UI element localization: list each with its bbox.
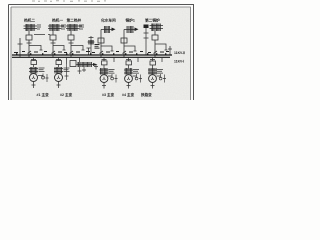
lower bay 4 value dashes (133, 70, 139, 74)
right end riser (168, 46, 172, 55)
upper bay 2 drop wire (52, 40, 54, 57)
lower bay 3 transformer T3 winding (100, 68, 109, 75)
lower bay 5 breaker box (150, 61, 156, 65)
station transformer value dashes (95, 45, 100, 49)
lower bay 2 tail wire (57, 81, 61, 88)
lower bay 3 value dashes (109, 70, 115, 74)
upper bay 3 tick (69, 42, 74, 44)
lower bay 5 tail wire (151, 82, 155, 88)
bus coupling marks above bus (14, 52, 169, 53)
upper bay 5 bus disconnector (123, 51, 127, 54)
upper bay 1 bus disconnector (28, 51, 32, 54)
svg-text:热机二: 热机二 (24, 18, 35, 23)
svg-text:11KV-Ⅰ: 11KV-Ⅰ (174, 60, 184, 64)
lower bay 5 transformer T5 winding (148, 68, 157, 75)
lower bay 3 breaker box (102, 61, 108, 65)
bus 11KV-I (12, 56, 170, 58)
upper bay 3 drop wire (70, 40, 72, 57)
upper bay 6 winding block W6 (150, 24, 164, 32)
border frame outer (9, 5, 194, 101)
upper bay 1 feeder wire (28, 31, 30, 35)
upper bay 6 feeder wire (154, 31, 156, 35)
svg-text:第二热井: 第二热井 (67, 18, 82, 23)
lower bay 3 circle glyph (103, 77, 106, 80)
lower bay 1 tail wire (32, 81, 36, 88)
lower bay 2 breaker box (56, 61, 62, 65)
upper bay 4 winding block W4 (101, 26, 112, 33)
upper bay 5 arrow blob (135, 28, 139, 32)
lower bay 2 side wire (65, 64, 69, 80)
upper bay 1 tick (27, 42, 32, 44)
lower bay 1 breaker box (31, 61, 37, 65)
upper bay 2 side marks (61, 25, 66, 29)
scan noise texture (11, 7, 191, 100)
upper bay 3 bus disconnector (70, 51, 74, 54)
svg-text:#1 主变: #1 主变 (37, 92, 50, 97)
station transformer riser (89, 36, 94, 55)
lower bay 2 value dashes (64, 68, 70, 72)
upper bay 4 branch wire (101, 46, 114, 51)
lower bay 5 circle glyph (151, 77, 154, 80)
lower bay 1 transformer T1 winding (29, 67, 38, 74)
upper bay 1 winding block W1 (24, 24, 38, 31)
upper bay 2 winding block W2 (48, 24, 64, 31)
upper bay 3 branch wire (71, 46, 85, 51)
svg-text:第二锅炉: 第二锅炉 (145, 18, 160, 23)
svg-text:化水车间: 化水车间 (101, 18, 116, 23)
upper bay 5 riser wire (123, 30, 125, 58)
lower bay 3 side arrester (108, 74, 118, 83)
svg-text:#3 主变: #3 主变 (102, 92, 115, 97)
lower drop ticks below bus (31, 57, 162, 64)
lower bay 1 transformer T1 circle (30, 74, 38, 82)
upper bay 5 winding block W5 (124, 26, 135, 33)
lower bay 4 transformer T4 winding (124, 68, 133, 75)
upper bay 6 drop wire (154, 40, 156, 57)
lower bay 3 wire (103, 65, 105, 69)
upper bay 5 branch wire (124, 46, 137, 51)
upper bay 4 breaker box B4 (98, 38, 104, 43)
upper bay 1 breaker box B1 (26, 35, 32, 40)
tie wire bay1-bay2 (34, 34, 50, 36)
upper bay 6 breaker box B6 (152, 35, 158, 40)
left riser wire (18, 38, 23, 57)
upper bay 2 bus disconnector (52, 51, 56, 54)
lower bay 1 side arrester (38, 74, 49, 83)
svg-text:换路变: 换路变 (141, 92, 152, 97)
svg-text:锅炉1: 锅炉1 (125, 18, 135, 23)
cropped header dots above frame (32, 0, 106, 2)
lower bay 4 transformer T4 circle (125, 75, 133, 83)
upper bay 3 winding block W3 (66, 24, 82, 31)
upper bay 4 bus disconnector (100, 51, 104, 54)
upper bay 2 feeder wire (52, 31, 54, 35)
upper bay 6 bus disconnector (154, 51, 158, 54)
station service feeder box (70, 61, 76, 67)
lower bay 5 transformer T5 circle (149, 75, 157, 83)
upper bay 3 feeder wire (70, 31, 72, 35)
lower bay 2 transformer T2 circle (55, 74, 63, 82)
lower bay 4 tail wire (127, 82, 131, 88)
upper bay 1 drop wire (28, 40, 30, 57)
lower bay 5 wire (152, 65, 154, 69)
lower bay 1 wire (33, 65, 35, 68)
station transformer left tick (87, 48, 91, 55)
upper bay 2 branch wire (53, 46, 66, 51)
upper bay 2 breaker box B2 (50, 35, 56, 40)
lower bay 2 transformer T2 winding (54, 67, 63, 74)
lower bay 4 wire (128, 65, 130, 69)
upper bay 4 arrow blob (112, 28, 116, 32)
upper bay 6 satellite riser (144, 28, 149, 55)
bus joint blobs (16, 53, 166, 54)
svg-text:#4 主变: #4 主变 (122, 92, 135, 97)
lower bay 5 value dashes (157, 70, 163, 74)
svg-text:热机一: 热机一 (52, 18, 63, 23)
station service arrow (93, 63, 98, 66)
lower bay 1 circle glyph (32, 76, 35, 79)
lower bay 5 side arrester (157, 74, 167, 83)
upper bay 6 branch wire (155, 44, 168, 50)
lower bay 3 transformer T3 circle (100, 75, 108, 83)
station service tail (78, 65, 99, 75)
upper bay 3 side marks (79, 25, 84, 29)
station transformer winding (88, 40, 95, 45)
lower bay 4 side arrester (133, 74, 143, 83)
svg-text:11KV-Ⅱ: 11KV-Ⅱ (174, 51, 185, 55)
border frame inner (11, 7, 191, 100)
lower bay 3 tail wire (102, 82, 106, 88)
lower bay 4 circle glyph (127, 77, 130, 80)
upper bay 5 breaker box B5 (121, 38, 127, 43)
upper bay 4 riser wire (100, 30, 102, 58)
upper bay 1 branch wire (29, 46, 43, 51)
svg-text:#2 主变: #2 主变 (60, 92, 73, 97)
lower bay 2 wire (58, 65, 60, 68)
lower bay 2 circle glyph (57, 76, 60, 79)
upper bay 6 satellite blob (144, 25, 149, 29)
lower bay 4 breaker box (126, 61, 132, 65)
station service cable hatch (77, 62, 94, 67)
upper bay 3 breaker box B3 (68, 35, 74, 40)
bus 11KV-II (12, 54, 172, 56)
lower bay 1 value dashes (39, 68, 45, 72)
upper bay 2 tick (51, 42, 56, 44)
upper bay 1 side marks (37, 25, 41, 29)
